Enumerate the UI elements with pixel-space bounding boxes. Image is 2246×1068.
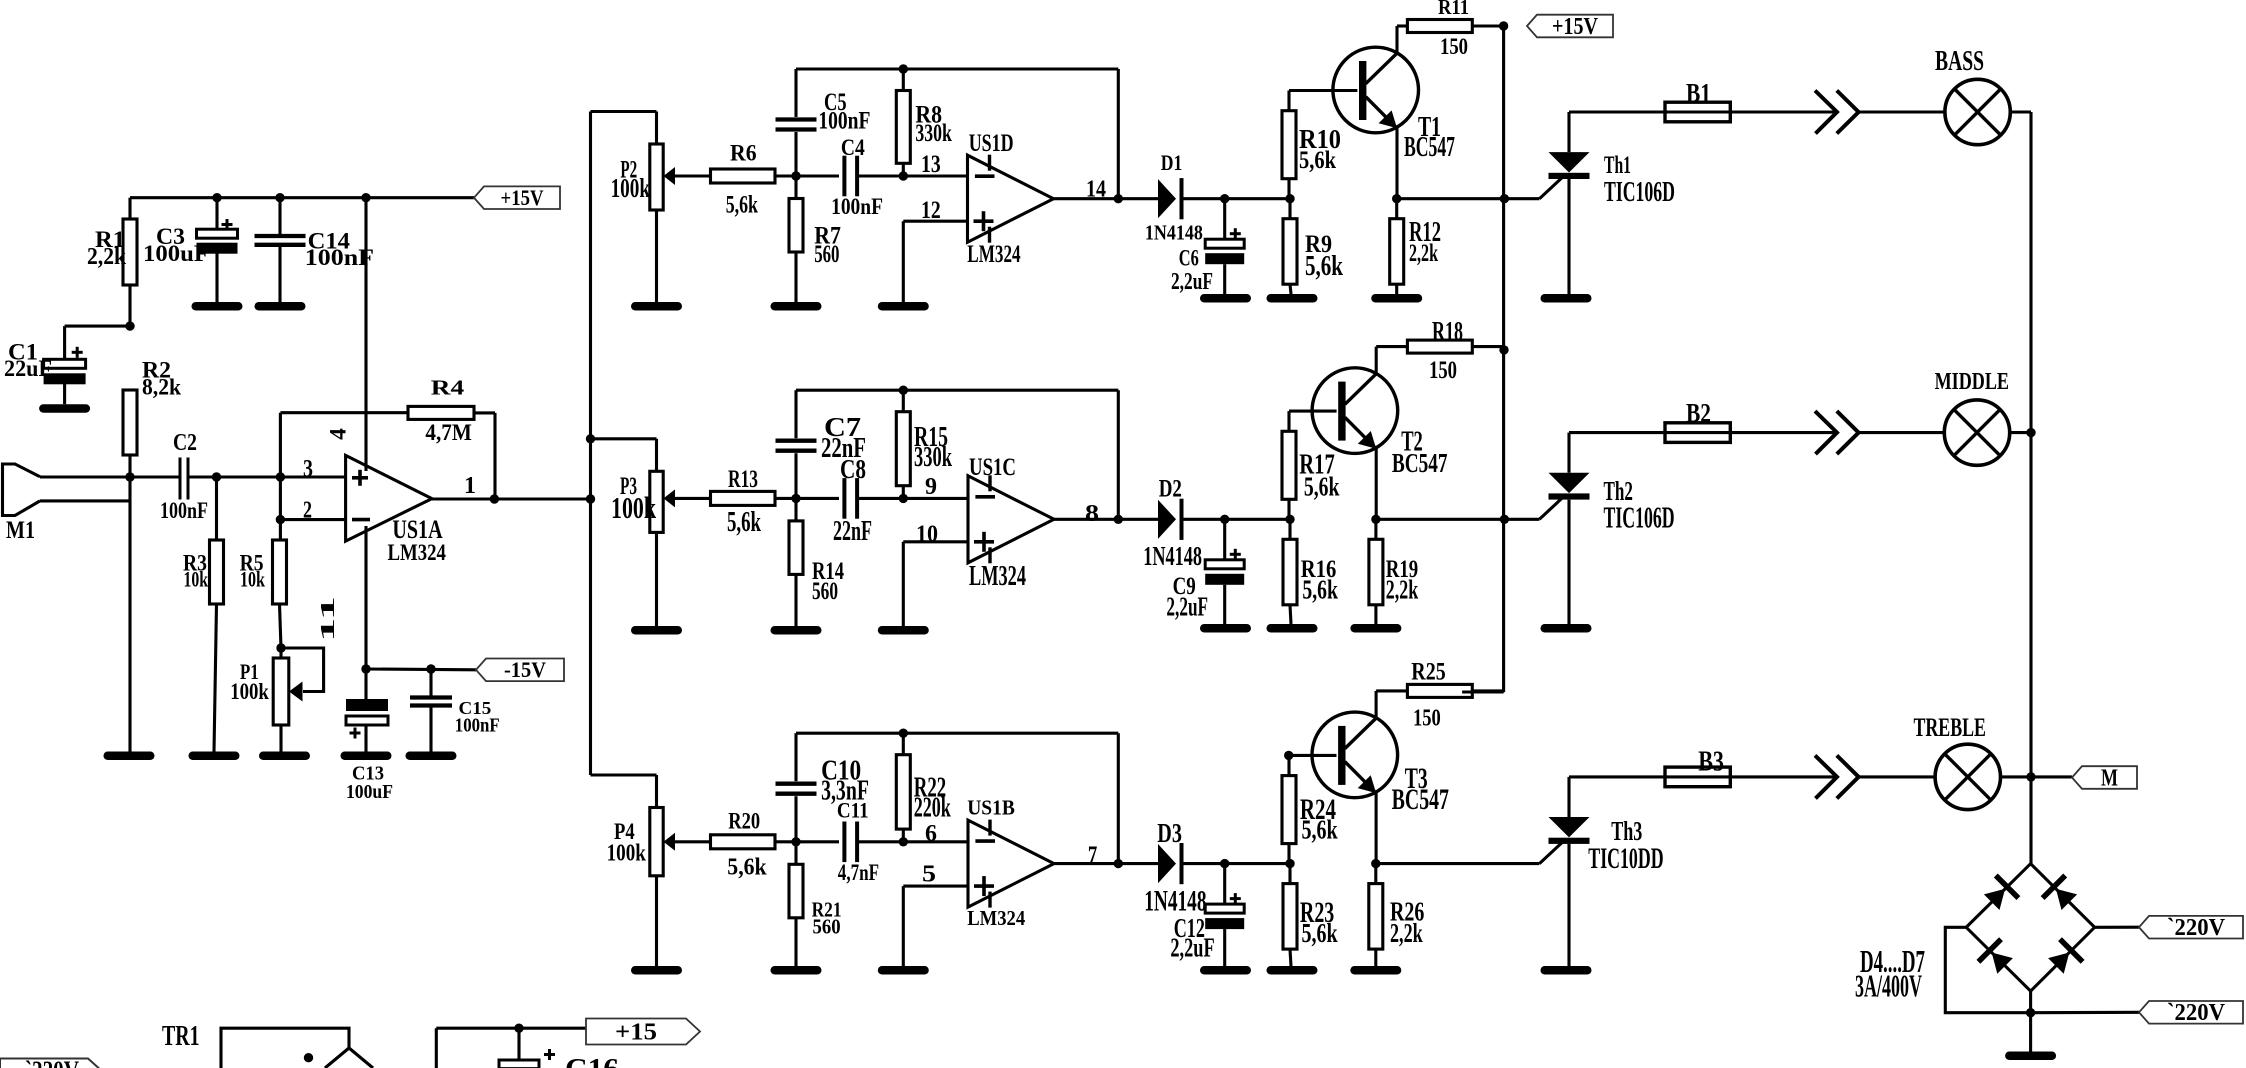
svg-text:1: 1 — [464, 472, 476, 499]
svg-text:5,6k: 5,6k — [1302, 918, 1339, 948]
svg-text:12: 12 — [921, 196, 941, 224]
wire fb drop — [279, 413, 282, 520]
wire noninverting input — [903, 542, 968, 626]
svg-text:5,6k: 5,6k — [1299, 145, 1337, 174]
node rail-C14 — [275, 193, 284, 202]
wire C16 row — [436, 1028, 586, 1068]
wire feedback top — [796, 389, 1118, 392]
svg-text:D1: D1 — [1161, 150, 1183, 175]
wire collector — [1376, 691, 1407, 718]
node gate-cross — [1500, 515, 1509, 524]
svg-text:C11: C11 — [837, 797, 869, 822]
ground M1 — [104, 752, 155, 761]
wire lamp-bus — [2010, 431, 2031, 434]
svg-text:R4: R4 — [431, 376, 465, 400]
node rail-pin4 — [361, 193, 370, 202]
wire distribution — [589, 112, 592, 776]
ground bridge — [2005, 1052, 2056, 1061]
capacitor C14 100nF — [255, 198, 375, 302]
svg-text:B2: B2 — [1686, 398, 1711, 428]
node top-Rfb — [899, 729, 908, 738]
diode D4 — [1984, 876, 2019, 911]
node feed P3 — [586, 434, 595, 443]
svg-text:14: 14 — [1086, 176, 1106, 203]
node fb-out — [1114, 515, 1123, 524]
op-amp US1A LM324 — [303, 455, 446, 565]
wire feed P2 — [591, 112, 657, 145]
power flag +15 — [586, 1019, 700, 1046]
diode D3 1N4148 — [1158, 843, 1184, 884]
wire node-A — [775, 497, 839, 500]
resistor R8 330k — [896, 69, 910, 176]
lamp MIDDLE — [1944, 400, 2009, 465]
wire bridge left loop — [1945, 927, 2030, 1012]
wire feed P3 — [591, 439, 657, 472]
diode D1 1N4148 — [1158, 178, 1184, 219]
wire pin2 — [280, 518, 345, 521]
svg-text:C4: C4 — [841, 135, 865, 161]
svg-text:330k: 330k — [914, 441, 952, 473]
resistor R4 4,7M — [280, 376, 495, 499]
wire feedback top — [796, 67, 1118, 70]
node fb-out — [1114, 859, 1123, 868]
wire emitter — [1395, 128, 1398, 199]
potentiometer P3 100k — [650, 471, 710, 626]
svg-text:10k: 10k — [184, 567, 209, 592]
svg-text:LM324: LM324 — [967, 239, 1020, 268]
ground R16 — [1267, 624, 1318, 633]
svg-text:M: M — [2101, 765, 2118, 791]
svg-text:TREBLE: TREBLE — [1914, 713, 1986, 742]
lamp BASS — [1945, 79, 2010, 144]
svg-text:B3: B3 — [1698, 747, 1724, 778]
node emitter — [1371, 515, 1380, 524]
wire diode-node — [1183, 518, 1290, 521]
wire diode-node — [1183, 862, 1290, 865]
ground C1 — [39, 404, 90, 413]
node C13 — [361, 664, 370, 673]
svg-text:TIC106D: TIC106D — [1604, 501, 1675, 535]
node Rdiv — [1285, 515, 1294, 524]
svg-text:3A/400V: 3A/400V — [1855, 968, 1922, 1003]
resistor R7 560 — [789, 176, 803, 302]
resistor R23 5,6k — [1282, 755, 1337, 863]
wire inverting input — [903, 174, 967, 177]
power flag 220V lower — [2139, 1000, 2243, 1026]
bridge rectifier D4....D7 — [1966, 864, 2094, 991]
svg-text:BC547: BC547 — [1392, 448, 1448, 479]
node rail-C3 — [212, 193, 221, 202]
power flag +15V right — [1527, 14, 1613, 40]
resistor R6 — [711, 169, 776, 183]
capacitor C15 100nF — [410, 669, 500, 752]
svg-text:8: 8 — [1085, 500, 1099, 527]
power flag 220V bottom-left — [0, 1056, 112, 1068]
diode D2 1N4148 — [1158, 499, 1184, 540]
svg-text:MIDDLE: MIDDLE — [1935, 368, 2009, 395]
node emitter — [1392, 194, 1401, 203]
resistor R17 5,6k — [1282, 411, 1337, 519]
svg-text:10k: 10k — [240, 567, 266, 592]
node filter-B — [899, 494, 908, 503]
svg-text:BC547: BC547 — [1404, 131, 1455, 163]
svg-text:100nF: 100nF — [305, 245, 374, 271]
svg-text:C2: C2 — [173, 429, 197, 456]
capacitor C1 22uF — [4, 339, 86, 404]
wire anode-fuse — [1569, 431, 1665, 434]
svg-text:560: 560 — [812, 576, 838, 605]
wire cser-node — [857, 497, 903, 500]
wire output — [1054, 862, 1158, 865]
svg-text:R20: R20 — [728, 809, 760, 834]
ground C14 — [255, 302, 306, 311]
node filter-A — [791, 837, 800, 846]
node filter-A — [791, 171, 800, 180]
svg-text:R18: R18 — [1432, 316, 1463, 346]
capacitor C4 100nF — [844, 156, 857, 197]
wire +15V drop — [1462, 26, 1504, 692]
svg-text:100k: 100k — [611, 172, 651, 203]
resistor R9 5,6k — [1283, 199, 1297, 294]
svg-text:R6: R6 — [730, 141, 757, 167]
svg-text:150: 150 — [1413, 705, 1441, 732]
ground C12 — [1200, 966, 1251, 975]
ground C15 — [406, 752, 457, 761]
wire pin4 power — [364, 198, 367, 471]
resistor R1 — [87, 219, 137, 326]
ground R19 — [1350, 624, 1401, 633]
wire lamp-bus — [2010, 110, 2031, 113]
capacitor C11 4,7nF — [844, 822, 857, 863]
ground Th2 — [1541, 624, 1592, 633]
node D1-C — [1220, 194, 1229, 203]
wire feedback drop — [1117, 69, 1120, 199]
svg-text:5,6k: 5,6k — [726, 191, 759, 219]
wire cser-node — [857, 840, 903, 843]
wire lamp-bus — [2001, 775, 2032, 778]
capacitor C16 — [499, 1028, 619, 1068]
transistor T1 BC547 — [1333, 47, 1419, 133]
svg-text:100uF: 100uF — [346, 781, 393, 803]
node filter-B — [899, 837, 908, 846]
wire collector — [1376, 347, 1407, 374]
node top-Rfb — [899, 64, 908, 73]
power flag 220V upper — [2139, 915, 2243, 941]
resistor R20 — [711, 835, 776, 849]
wire R18-rail — [1472, 345, 1504, 348]
node R11-flag — [1499, 21, 1508, 30]
node bridge-bottom — [2026, 1008, 2035, 1017]
svg-text:2,2k: 2,2k — [87, 243, 126, 270]
node pin2 — [276, 515, 285, 524]
node D2-C — [1220, 515, 1229, 524]
connector chevrons — [1815, 755, 1859, 798]
ground C9 — [1200, 624, 1251, 633]
svg-text:5,6k: 5,6k — [1302, 815, 1339, 845]
svg-text:13: 13 — [921, 149, 941, 178]
capacitor C6 2,2uF — [1205, 199, 1244, 294]
svg-text:+15V: +15V — [501, 185, 544, 210]
ground +input — [878, 626, 929, 635]
pin 4 label — [326, 428, 351, 440]
wire M flag — [2031, 775, 2072, 778]
wire -15V row — [366, 667, 476, 671]
fuse B3 — [1665, 767, 1730, 787]
svg-text:D3: D3 — [1157, 818, 1182, 848]
svg-text:C16: C16 — [565, 1054, 619, 1068]
svg-text:22uF: 22uF — [4, 356, 52, 382]
svg-text:`220V: `220V — [2167, 915, 2226, 941]
svg-text:150: 150 — [1429, 355, 1457, 384]
transformer TR1 — [162, 1021, 373, 1068]
svg-text:R13: R13 — [728, 464, 758, 493]
capacitor C9 2,2uF — [1205, 519, 1244, 624]
svg-text:100nF: 100nF — [818, 106, 870, 134]
capacitor C8 22nF — [844, 478, 857, 519]
svg-text:Th1: Th1 — [1604, 150, 1631, 179]
diode D5 — [2043, 876, 2078, 911]
svg-text:4,7nF: 4,7nF — [838, 860, 879, 885]
svg-text:22nF: 22nF — [833, 515, 872, 547]
op-amp US1B LM324 — [968, 820, 1054, 908]
svg-text:4,7M: 4,7M — [425, 420, 472, 445]
diode D6 — [1978, 939, 2013, 974]
svg-text:US1C: US1C — [969, 452, 1016, 481]
ground R3 — [189, 752, 240, 761]
wire fuse-connector — [1730, 775, 1837, 778]
svg-text:US1B: US1B — [967, 795, 1015, 819]
wire connector-lamp — [1859, 431, 1945, 434]
svg-text:150: 150 — [1440, 34, 1468, 59]
wire node-A — [775, 174, 839, 177]
wire gate — [1376, 842, 1563, 864]
ground C13 — [341, 752, 392, 761]
svg-text:LM324: LM324 — [967, 906, 1025, 930]
node fb-out — [1114, 194, 1123, 203]
svg-text:2,2k: 2,2k — [1390, 918, 1423, 948]
resistor R26 2,2k — [1369, 864, 1383, 966]
ground +input — [878, 302, 929, 311]
wire pin3 input — [40, 475, 180, 478]
node TR1 winding — [304, 1053, 313, 1062]
svg-text:R25: R25 — [1411, 659, 1445, 686]
power flag -15V — [476, 657, 564, 682]
ground P3 — [631, 626, 682, 635]
ground R26 — [1350, 966, 1401, 975]
resistor R2 — [123, 358, 181, 478]
wire 220V lower — [2031, 1011, 2139, 1015]
node R4-out — [490, 494, 499, 503]
op-amp US1C LM324 — [968, 475, 1054, 563]
svg-text:5,6k: 5,6k — [1302, 575, 1338, 606]
svg-text:LM324: LM324 — [388, 540, 446, 565]
node bus-TREBLE — [2026, 772, 2035, 781]
resistor R22 220k — [896, 733, 910, 842]
ground C3 — [192, 302, 243, 311]
wire feedback top — [796, 732, 1118, 735]
node bus-MIDDLE — [2026, 428, 2035, 437]
wire feed P4 — [591, 775, 657, 808]
resistor R12 2,2k — [1390, 199, 1404, 294]
svg-text:8,2k: 8,2k — [142, 374, 181, 400]
svg-text:5,6k: 5,6k — [1304, 471, 1340, 502]
svg-text:100k: 100k — [611, 491, 656, 525]
ground R7 — [771, 302, 822, 311]
wire feedback drop — [1117, 733, 1120, 863]
capacitor C3 100uF — [143, 198, 238, 302]
svg-text:TIC10DD: TIC10DD — [1588, 842, 1663, 875]
thyristor Th2 TIC106D — [1549, 433, 1590, 624]
diode D7 — [2048, 939, 2083, 974]
wire gate — [1397, 177, 1563, 199]
wire anode-fuse — [1569, 110, 1665, 113]
svg-text:100nF: 100nF — [160, 498, 208, 523]
ground P2 — [631, 302, 682, 311]
wire gate — [1376, 497, 1563, 519]
svg-text:+15V: +15V — [1552, 14, 1599, 40]
wire cser-node — [857, 174, 903, 177]
resistor R5 10k — [240, 520, 287, 648]
svg-text:`220V: `220V — [2167, 1000, 2226, 1026]
potentiometer P4 100k — [650, 808, 710, 967]
flag M — [2072, 765, 2137, 791]
node C15 — [426, 664, 435, 673]
capacitor C2 100nF — [160, 429, 208, 523]
svg-text:`220V: `220V — [25, 1056, 79, 1068]
wire C2-opamp — [188, 475, 346, 478]
lamp TREBLE — [1935, 744, 2000, 809]
resistor R10 5,6k — [1282, 91, 1357, 199]
wire +15V rail — [130, 198, 474, 219]
svg-text:10: 10 — [916, 521, 938, 548]
node top-Rfb — [899, 386, 908, 395]
svg-text:100k: 100k — [230, 679, 269, 704]
svg-text:D2: D2 — [1159, 475, 1182, 502]
wire pin11 power — [364, 526, 367, 669]
node base corner — [1284, 751, 1293, 760]
fuse B1 — [1665, 102, 1730, 122]
wire connector-lamp — [1859, 775, 1936, 778]
svg-text:R11: R11 — [1438, 0, 1469, 19]
fuse B2 — [1665, 423, 1730, 443]
wire fuse-connector — [1730, 110, 1837, 113]
capacitor C7 22nF — [776, 390, 817, 498]
svg-text:560: 560 — [814, 239, 839, 268]
wire inverting input — [903, 497, 968, 500]
svg-text:B1: B1 — [1686, 78, 1711, 108]
svg-text:2,2uF: 2,2uF — [1166, 592, 1208, 623]
resistor R25 150 — [1407, 684, 1472, 697]
svg-text:LM324: LM324 — [969, 560, 1026, 592]
svg-text:5,6k: 5,6k — [727, 506, 761, 538]
thyristor Th3 TIC10DD — [1549, 777, 1590, 966]
wire noninverting input — [903, 221, 967, 302]
node D3-C — [1220, 859, 1229, 868]
svg-text:2,2uF: 2,2uF — [1171, 268, 1213, 295]
svg-text:3: 3 — [303, 456, 313, 483]
ground +input — [878, 966, 929, 975]
bridge labels — [1855, 944, 1925, 1003]
resistor R15 330k — [896, 390, 910, 498]
svg-text:11: 11 — [317, 596, 339, 642]
svg-text:M1: M1 — [6, 515, 35, 544]
svg-text:100nF: 100nF — [831, 194, 883, 220]
resistor R13 — [711, 491, 776, 505]
svg-text:+15: +15 — [615, 1019, 657, 1045]
ground Th1 — [1541, 294, 1592, 303]
svg-text:5,6k: 5,6k — [727, 855, 767, 881]
node emitter — [1371, 859, 1380, 868]
wire emitter — [1375, 449, 1378, 520]
svg-text:C8: C8 — [840, 454, 866, 484]
svg-text:2: 2 — [303, 497, 312, 524]
wire node-A — [775, 840, 839, 843]
op-amp US1D LM324 — [968, 155, 1054, 243]
connector chevrons — [1815, 411, 1859, 454]
ground R9 — [1267, 294, 1318, 303]
svg-text:5,6k: 5,6k — [1305, 250, 1343, 282]
capacitor C5 100nF — [776, 69, 817, 176]
svg-text:2,2uF: 2,2uF — [1170, 933, 1214, 963]
wire US1A output — [432, 472, 591, 499]
svg-text:2,2k: 2,2k — [1409, 238, 1438, 267]
wire noninverting input — [903, 886, 968, 966]
resistor R3 10k — [183, 477, 224, 752]
svg-text:6: 6 — [925, 820, 937, 847]
svg-text:TIC106D: TIC106D — [1604, 176, 1675, 208]
svg-text:7: 7 — [1088, 841, 1098, 869]
capacitor C12 2,2uF — [1205, 864, 1244, 966]
wire anode-fuse — [1569, 775, 1665, 778]
svg-text:2,2k: 2,2k — [1386, 575, 1419, 606]
svg-text:BC547: BC547 — [1392, 783, 1449, 816]
wire M1 return — [40, 477, 130, 752]
wire emitter — [1375, 793, 1378, 864]
node out-dist — [586, 494, 595, 503]
wire collector — [1397, 26, 1407, 53]
svg-text:US1D: US1D — [969, 128, 1014, 157]
svg-text:330k: 330k — [915, 118, 952, 147]
wire output — [1054, 197, 1159, 200]
node filter-A — [791, 494, 800, 503]
wire bridge bottom — [2029, 991, 2032, 1051]
resistor R11 150 — [1407, 20, 1472, 33]
ground R21 — [771, 966, 822, 975]
wire lamp bus — [2029, 112, 2032, 864]
pin 11 label — [317, 596, 339, 642]
wire R11-rail — [1472, 24, 1503, 27]
node pin3-fb — [276, 472, 285, 481]
node C2-R2 — [125, 472, 134, 481]
resistor R18 150 — [1407, 340, 1472, 353]
ground P1 — [259, 752, 310, 761]
svg-text:560: 560 — [813, 915, 841, 939]
node C16 — [514, 1023, 523, 1032]
svg-text:4: 4 — [326, 428, 351, 440]
connector chevrons — [1815, 91, 1859, 134]
svg-text:100nF: 100nF — [455, 715, 500, 737]
svg-text:100k: 100k — [607, 841, 647, 867]
svg-text:1N4148: 1N4148 — [1143, 541, 1202, 572]
resistor R19 2,2k — [1369, 519, 1383, 624]
ground C6 — [1200, 294, 1251, 303]
svg-text:BASS: BASS — [1935, 45, 1984, 77]
node Rdiv — [1285, 194, 1294, 203]
svg-text:TR1: TR1 — [162, 1021, 200, 1052]
node R18-rail — [1499, 345, 1508, 354]
wire R25-rail — [1472, 689, 1504, 692]
ground R14 — [771, 626, 822, 635]
